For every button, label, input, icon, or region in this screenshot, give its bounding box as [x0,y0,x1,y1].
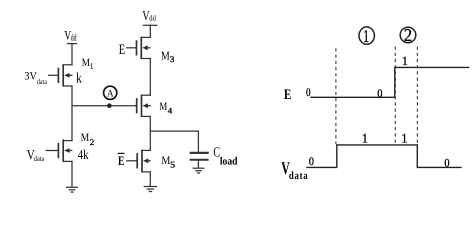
svg-text:data: data [34,154,45,163]
phase marker 1 [359,26,374,46]
svg-text:A: A [107,88,115,99]
svg-text:M: M [161,155,170,167]
svg-text:2: 2 [90,137,94,147]
svg-text:data: data [289,170,308,182]
svg-text:1: 1 [362,130,368,145]
waveform E [311,67,469,97]
label M5 [161,155,175,170]
svg-text:3: 3 [170,54,175,64]
transistor M1 [49,64,73,86]
Vdd label (left branch) [64,27,76,43]
junction dot node A [107,103,112,108]
svg-text:M: M [159,101,167,113]
svg-text:3V: 3V [24,71,37,83]
svg-text:0: 0 [444,158,449,170]
Vdd terminal bar (left branch) [67,43,76,45]
signal label Vdata [281,158,308,182]
svg-text:E: E [284,87,292,103]
svg-text:1: 1 [402,54,408,68]
wire Vdd to M3 drain [149,25,151,37]
capacitor Cload [190,131,209,168]
svg-text:0: 0 [306,87,311,99]
transistor M3 [127,37,151,59]
transistor M4 [137,95,151,117]
svg-text:1: 1 [363,26,369,46]
label 3Vdata (M1 gate input) [24,71,47,87]
wire M1 source to M2 drain [71,86,73,141]
svg-text:data: data [37,77,48,86]
ground (under M5) [144,187,156,192]
wire output node to Cload [150,130,198,132]
phase marker 2 [400,25,416,45]
svg-text:4k: 4k [78,147,89,162]
svg-text:k: k [76,71,82,87]
wire M3 source to M4 drain [149,59,151,96]
dashed timeline t2 [394,47,396,145]
svg-text:4: 4 [168,106,173,116]
label M1 [82,57,93,70]
node wire A to M4 gate [72,105,137,107]
svg-text:dd: dd [149,14,156,23]
ground (under Cload) [193,168,204,173]
Vdd label (right branch) [142,8,156,23]
wire Vdd to M1 drain [71,44,73,65]
ground (under M2) [67,187,78,192]
Vdd terminal bar (right branch) [143,24,157,26]
svg-text:1: 1 [401,130,407,145]
label E-bar (M5 gate input) [118,153,125,168]
svg-text:1: 1 [90,62,93,71]
svg-text:5: 5 [170,160,176,170]
label M3 [161,49,175,64]
svg-text:E: E [118,153,124,168]
wire M2 source to ground [71,161,73,186]
svg-text:M: M [81,132,90,144]
svg-text:load: load [220,156,238,168]
label Cload [213,146,237,168]
svg-text:dd: dd [71,34,77,44]
dashed timeline t3 [416,47,418,145]
label Vdata (M2 gate input) [27,147,45,163]
wire M4 source to M5 drain [149,116,151,150]
dashed timeline t1 [335,48,337,144]
svg-text:M: M [82,57,90,69]
svg-text:E: E [119,42,126,58]
label M2 [81,132,95,147]
svg-text:0: 0 [309,156,314,168]
label M4 [159,101,173,116]
svg-text:2: 2 [404,25,412,45]
node A bubble [104,86,117,99]
waveform Vdata [307,145,461,168]
svg-text:0: 0 [377,88,382,100]
wire M5 source to ground [149,172,151,186]
transistor M2 [46,139,72,161]
transistor M5 [127,150,151,172]
